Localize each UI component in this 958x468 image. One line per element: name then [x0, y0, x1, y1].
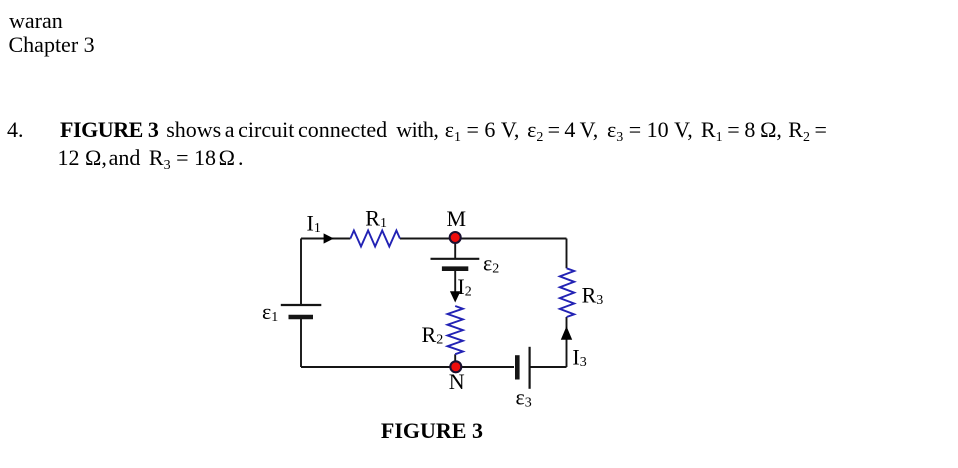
- svg-text:M: M: [447, 206, 467, 231]
- svg-text:ε2: ε2: [483, 251, 499, 277]
- svg-text:I1: I1: [307, 211, 321, 237]
- svg-text:I2: I2: [457, 274, 471, 300]
- svg-text:N: N: [449, 369, 465, 394]
- svg-text:ε1: ε1: [262, 299, 278, 325]
- svg-text:R1: R1: [365, 206, 387, 232]
- svg-text:R3: R3: [582, 283, 604, 309]
- svg-text:I3: I3: [572, 345, 586, 371]
- svg-text:R2: R2: [422, 322, 444, 348]
